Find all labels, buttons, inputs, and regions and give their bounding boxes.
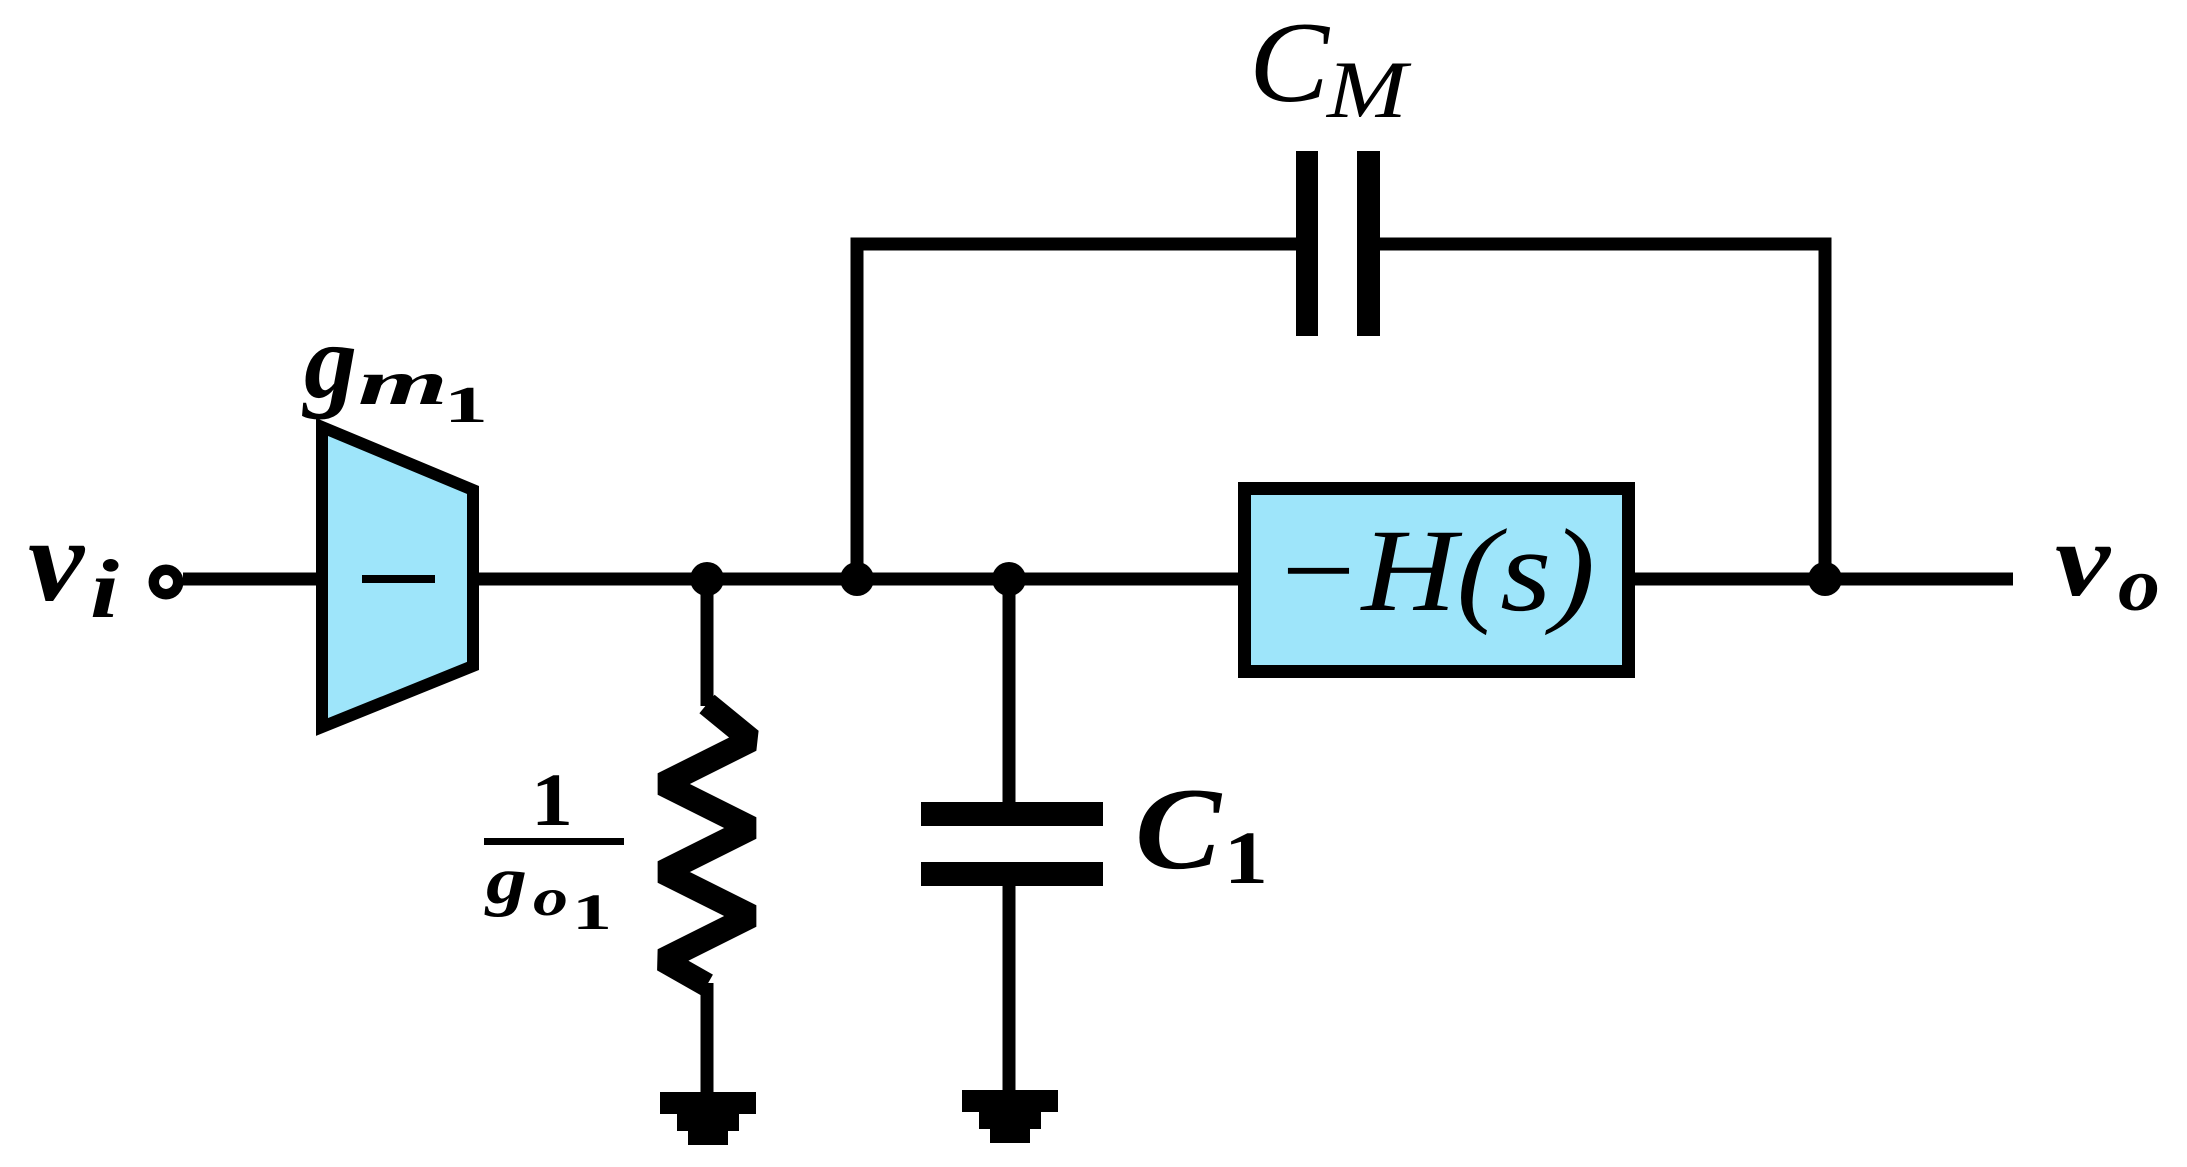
svg-text:o: o	[533, 869, 568, 927]
svg-text:−H(s): −H(s)	[1273, 505, 1595, 636]
svg-text:1: 1	[1224, 817, 1268, 900]
svg-text:M: M	[1326, 44, 1413, 135]
svg-text:v: v	[2055, 501, 2112, 618]
svg-text:m: m	[358, 347, 448, 418]
svg-text:1: 1	[531, 759, 573, 842]
svg-text:C: C	[1135, 765, 1223, 894]
svg-text:1: 1	[444, 377, 488, 434]
svg-text:C: C	[1249, 0, 1331, 127]
svg-text:o: o	[2118, 543, 2160, 627]
svg-text:1: 1	[572, 885, 612, 941]
svg-text:i: i	[90, 543, 119, 636]
svg-text:v: v	[28, 495, 86, 626]
svg-text:g: g	[484, 844, 527, 918]
svg-text:g: g	[302, 303, 357, 420]
